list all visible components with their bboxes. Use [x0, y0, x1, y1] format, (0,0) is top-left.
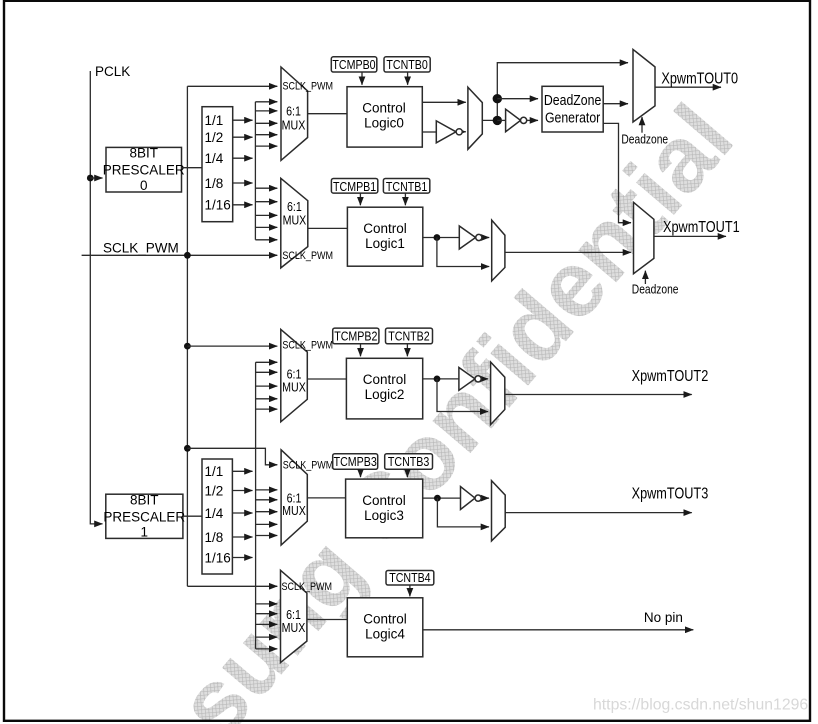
svg-text:1/1: 1/1: [205, 464, 224, 479]
control logic U1: [347, 207, 422, 266]
svg-text:SCLK_PWM: SCLK_PWM: [282, 250, 333, 262]
wire mux4 output to control logic 4: [307, 619, 347, 621]
wire TCMPB2 to control logic 2: [360, 344, 362, 357]
wire bus to mux1 input 2: [255, 201, 277, 203]
svg-text:sung Confidential: sung Confidential: [157, 85, 752, 724]
svg-text:1/2: 1/2: [205, 130, 224, 145]
node No pin label: [644, 610, 683, 625]
svg-text:TCMPB1: TCMPB1: [333, 179, 377, 194]
svg-text:1/16: 1/16: [205, 198, 231, 213]
svg-text:Deadzone: Deadzone: [632, 284, 679, 297]
wire divider 1 output 1/8 to bus: [232, 536, 252, 538]
register TCNTB4: [386, 570, 434, 585]
svg-text:SCLK_PWM: SCLK_PWM: [282, 581, 333, 593]
mux M1 6:1: [281, 178, 333, 268]
wire bus to mux2 input 2: [256, 371, 278, 373]
register TCNTB3: [385, 454, 433, 470]
inverter G0: [436, 121, 466, 143]
svg-text:TCMPB2: TCMPB2: [334, 328, 377, 343]
register TCMPB1: [331, 179, 377, 195]
wire TCNTB3 to control logic 3: [406, 469, 408, 477]
svg-text:SCLK_PWM: SCLK_PWM: [283, 81, 334, 93]
wire divider 0 output 1/1 to bus: [233, 119, 253, 121]
svg-text:XpwmTOUT1: XpwmTOUT1: [663, 219, 740, 236]
wire PCLK to prescaler 0: [90, 177, 102, 179]
wire bus to mux4 input 3: [256, 623, 278, 625]
register TCNTB2: [386, 328, 433, 344]
svg-text:Deadzone: Deadzone: [621, 133, 668, 146]
mux M2b 2:1 output select: [491, 362, 505, 425]
wire prescaler 1 to divider 1: [183, 515, 202, 517]
node SCLK_PWM label: [103, 241, 179, 256]
wire divider 0 output 1/2 to bus: [233, 136, 253, 138]
wire mux1 output to control logic 1: [308, 227, 348, 229]
junction dot SCLK_PWM to mux2: [184, 343, 191, 350]
wire divider 1 output 1/2 to bus: [232, 490, 252, 492]
node Deadzone label 0: [621, 133, 668, 146]
wire SCLK_PWM to mux0 top input: [187, 85, 277, 87]
watermark Samsung Confidential: [157, 85, 752, 724]
wire XpwmTOUT3 output: [505, 512, 692, 514]
svg-text:MUX: MUX: [282, 620, 306, 635]
svg-text:No pin: No pin: [644, 610, 683, 625]
svg-text:SCLK_PWM: SCLK_PWM: [283, 460, 334, 472]
register TCMPB0: [331, 57, 377, 72]
wire bus to mux2 input 1: [256, 361, 278, 363]
svg-text:XpwmTOUT3: XpwmTOUT3: [632, 485, 709, 502]
wire bus to mux4 input 1: [256, 603, 278, 605]
inverter G0b: [506, 109, 538, 132]
svg-text:1/2: 1/2: [205, 483, 224, 498]
wire deadzone output 1 to output mux0: [603, 103, 628, 105]
wire XpwmTOUT1 output: [654, 235, 726, 237]
register TCNTB0: [384, 57, 430, 72]
svg-text:SCLK_PWM: SCLK_PWM: [103, 241, 179, 256]
wire bus to mux0 input 1: [255, 101, 277, 103]
svg-text:TCMPB0: TCMPB0: [332, 57, 376, 72]
register TCMPB2: [333, 328, 379, 344]
wire bus to mux1 input 3: [255, 214, 277, 216]
clock divider 0: [202, 107, 233, 222]
wire TCNTB1 to control logic 1: [404, 193, 406, 205]
control logic U4: [347, 598, 423, 657]
svg-text:MUX: MUX: [282, 379, 306, 394]
svg-text:0: 0: [140, 178, 148, 193]
wire bus to mux2 input 4: [256, 398, 278, 400]
svg-text:8BIT: 8BIT: [129, 146, 158, 161]
control logic U0: [347, 87, 422, 147]
svg-text:1/8: 1/8: [205, 530, 224, 545]
svg-text:TCNTB1: TCNTB1: [386, 179, 428, 194]
wire bus to mux4 input 4: [256, 636, 278, 638]
svg-text:https://blog.csdn.net/shun1296: https://blog.csdn.net/shun1296: [593, 697, 808, 714]
svg-text:TCNTB4: TCNTB4: [389, 570, 431, 585]
wire bus to mux0 input 2: [255, 110, 277, 112]
svg-text:MUX: MUX: [282, 117, 306, 132]
mux M0c output mux XpwmTOUT0: [633, 49, 655, 122]
svg-text:TCNTB0: TCNTB0: [386, 57, 428, 72]
wire XpwmTOUT0 output: [655, 86, 721, 88]
mux M0b 2:1 output select: [468, 87, 482, 149]
bus 1 vertical: [255, 362, 257, 649]
wire No pin output: [423, 629, 694, 631]
wire control logic 0 lower output to inverter: [422, 131, 436, 133]
svg-text:1/8: 1/8: [205, 176, 224, 191]
node XpwmTOUT1 label: [663, 219, 740, 236]
junction dot C3: [434, 495, 441, 502]
wire bus to mux1 input 5: [255, 239, 277, 241]
wire control logic 2 output: [423, 378, 459, 380]
wire bus to mux4 input 5: [256, 648, 278, 650]
wire SCLK_PWM main horizontal: [82, 254, 278, 256]
node XpwmTOUT0 label: [661, 70, 738, 87]
svg-text:TCMPB3: TCMPB3: [334, 454, 378, 469]
junction dot B0: [493, 94, 502, 103]
svg-text:1: 1: [141, 525, 149, 540]
register TCMPB3: [333, 454, 378, 470]
wire mux0 output to control logic 0: [308, 113, 347, 115]
wire mux1b output to output mux1: [505, 251, 631, 253]
svg-text:PCLK: PCLK: [95, 64, 130, 79]
wire divider 0 output 1/8 to bus: [233, 182, 253, 184]
inverter G1: [459, 226, 489, 249]
junction dot PCLK to prescaler 0: [87, 175, 94, 182]
wire XpwmTOUT2 output: [505, 394, 692, 396]
node XpwmTOUT3 label: [632, 485, 709, 502]
wire control logic 1 output: [423, 237, 460, 239]
svg-text:TCNTB3: TCNTB3: [388, 454, 430, 469]
mux M4 6:1: [281, 570, 333, 662]
wire divider 1 output 1/4 to bus: [232, 512, 252, 514]
wire bus to mux0 input 3: [255, 122, 277, 124]
wire mux2 output to control logic 2: [307, 378, 346, 380]
wire TCMPB3 to control logic 3: [360, 469, 362, 477]
wire divider 1 output 1/16 to bus: [232, 557, 252, 559]
wire deadzone output 2 down to output mux1: [603, 123, 631, 222]
mux M1b 2:1 output select: [492, 220, 505, 281]
watermark URL: [593, 697, 808, 714]
wire TCNTB4 to control logic 4: [409, 585, 411, 596]
wire SCLK_PWM vertical distribution: [186, 86, 188, 586]
svg-text:SCLK_PWM: SCLK_PWM: [282, 340, 333, 352]
wire bus to mux3 input 2: [256, 499, 278, 501]
wire bus to mux2 input 3: [256, 385, 278, 387]
svg-text:PRESCALER: PRESCALER: [103, 510, 185, 525]
svg-text:MUX: MUX: [283, 213, 307, 228]
svg-text:Generator: Generator: [545, 109, 601, 125]
svg-text:Logic2: Logic2: [365, 387, 405, 402]
junction dot A0: [493, 116, 502, 125]
junction dot C2: [434, 376, 441, 383]
wire bus to mux1 input 1: [255, 187, 277, 189]
wire TCNTB2 to control logic 2: [406, 344, 408, 357]
svg-text:Logic0: Logic0: [364, 115, 404, 130]
wire bus to mux3 input 4: [256, 523, 278, 525]
wire bus to mux3 input 3: [256, 511, 278, 513]
junction dot SCLK_PWM main: [184, 252, 191, 259]
wire divider 1 output 1/1 to bus: [232, 470, 252, 472]
svg-text:XpwmTOUT0: XpwmTOUT0: [661, 70, 738, 87]
svg-text:Control: Control: [362, 100, 406, 115]
node XpwmTOUT2 label: [632, 368, 709, 385]
svg-text:DeadZone: DeadZone: [544, 92, 602, 108]
register TCNTB1: [383, 179, 429, 195]
node PCLK label: [95, 64, 130, 79]
inverter G2: [459, 368, 488, 391]
control logic U3: [346, 479, 423, 538]
svg-text:Control: Control: [363, 612, 407, 627]
mux M3b 2:1 output select: [492, 481, 506, 541]
svg-text:PRESCALER: PRESCALER: [103, 163, 185, 178]
deadzone generator: [542, 86, 603, 132]
wire control logic 3 output: [423, 497, 461, 499]
wire PCLK vertical trunk to prescaler 1: [90, 71, 102, 524]
svg-text:Control: Control: [363, 372, 407, 387]
mux M2 6:1: [281, 329, 333, 421]
wire divider 0 output 1/4 to bus: [233, 157, 253, 159]
mux M1c output mux XpwmTOUT1: [634, 202, 654, 273]
wire bus to mux0 input 4: [255, 134, 277, 136]
wire SCLK_PWM to mux4 top input: [187, 585, 277, 587]
svg-text:Control: Control: [362, 493, 406, 508]
svg-text:MUX: MUX: [282, 503, 306, 518]
wire mux3 output to control logic 3: [307, 497, 345, 499]
wire TCMPB0 to control logic 0: [361, 72, 363, 85]
svg-text:1/4: 1/4: [205, 151, 224, 166]
wire TCMPB1 to control logic 1: [359, 193, 361, 205]
control logic U2: [346, 358, 422, 419]
wire control logic 0 upper output to mux: [422, 101, 466, 103]
svg-text:Logic1: Logic1: [365, 236, 405, 251]
wire bus to mux2 input 5: [256, 408, 278, 410]
svg-text:6:1: 6:1: [286, 103, 301, 118]
inverter G3: [461, 487, 490, 510]
8-bit prescaler 1: [103, 493, 185, 540]
wire branch to mux1b lower input: [437, 238, 489, 267]
wire bus to mux3 input 5: [256, 535, 278, 537]
mux M3 6:1: [281, 450, 333, 545]
svg-text:Logic3: Logic3: [364, 508, 404, 523]
svg-text:XpwmTOUT2: XpwmTOUT2: [632, 368, 709, 385]
8-bit prescaler 0: [103, 146, 185, 193]
wire divider 0 output 1/16 to bus: [233, 204, 253, 206]
svg-text:1/1: 1/1: [205, 113, 224, 128]
svg-text:1/4: 1/4: [205, 506, 224, 521]
wire deadzone select 0: [641, 117, 643, 133]
svg-text:TCNTB2: TCNTB2: [388, 328, 429, 343]
wire TCNTB0 to control logic 0: [407, 72, 409, 85]
mux M0 6:1: [281, 67, 333, 160]
svg-text:Control: Control: [363, 221, 407, 236]
wire bus to mux0 input 5: [255, 145, 277, 147]
wire bus to mux4 input 2: [256, 613, 278, 615]
wire branch to mux2b lower input: [437, 379, 488, 412]
svg-text:1/16: 1/16: [205, 550, 231, 565]
node Deadzone label 1: [632, 284, 679, 297]
clock divider 1: [202, 459, 232, 574]
wire deadzone select 1: [644, 271, 646, 284]
junction dot SCLK_PWM to mux3: [184, 445, 191, 452]
wire SCLK_PWM to mux3 top input: [187, 448, 277, 465]
junction dot C1: [434, 234, 441, 241]
wire bus to mux1 input 4: [255, 226, 277, 228]
wire prescaler 0 to divider 0: [182, 167, 203, 169]
svg-text:Logic4: Logic4: [365, 627, 405, 642]
bus 0 vertical: [254, 102, 256, 240]
svg-text:8BIT: 8BIT: [130, 493, 159, 508]
wire branch to mux3b lower input: [437, 498, 489, 527]
wire SCLK_PWM to mux2 top input: [187, 345, 277, 347]
wire to deadzone generator input 1: [497, 98, 538, 100]
wire to inverter before deadzone: [497, 119, 505, 121]
wire mux0b output to junctions: [482, 63, 628, 121]
wire bus to mux3 input 1: [256, 489, 278, 491]
